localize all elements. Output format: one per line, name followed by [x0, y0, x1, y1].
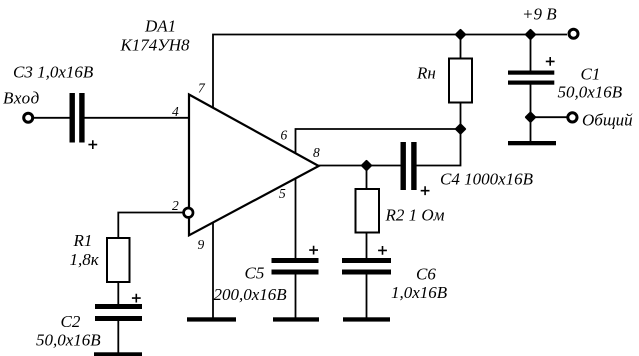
- wire: output pin 8 to C4 left plate: [319, 165, 401, 167]
- ground bar below pin 9: [187, 317, 236, 321]
- svg-text:C1: C1: [581, 65, 601, 84]
- capacitor C3 plates: [70, 93, 75, 143]
- svg-text:К174УН8: К174УН8: [120, 36, 191, 55]
- capacitor C1 plates: [508, 71, 554, 75]
- junction node on rail at Rn: [456, 30, 465, 39]
- junction node pin6/Rn/C4: [456, 125, 465, 134]
- plus mark C2: [132, 294, 141, 303]
- svg-text:1,0x16В: 1,0x16В: [391, 283, 448, 302]
- wire: pin 2 left and down to R1 top: [118, 213, 183, 239]
- svg-text:+9 В: +9 В: [522, 5, 557, 24]
- ground bar below C5: [273, 317, 319, 321]
- wire: pin6 node down to C4 right plate: [417, 129, 461, 166]
- svg-text:4: 4: [172, 104, 179, 119]
- capacitor C4 plates: [401, 142, 406, 190]
- svg-text:DA1: DA1: [144, 17, 176, 36]
- capacitor C6 plates: [342, 258, 391, 263]
- wire: C6 bottom plate to ground: [366, 275, 368, 318]
- svg-text:Вход: Вход: [3, 89, 40, 108]
- wire: rail to Rn top: [460, 35, 462, 59]
- wire: +9V rail with pin 7 riser: [213, 35, 567, 108]
- svg-text:R1: R1: [73, 231, 93, 250]
- svg-text:Общий: Общий: [582, 111, 633, 130]
- input terminal circle: [24, 113, 33, 122]
- svg-text:C3 1,0x16В: C3 1,0x16В: [13, 63, 94, 82]
- capacitor C5 plates: [272, 258, 319, 263]
- wire: C2 bottom plate to ground: [117, 321, 119, 353]
- svg-text:5: 5: [279, 186, 286, 201]
- svg-text:50,0x16В: 50,0x16В: [558, 83, 623, 102]
- op-amp DA1 triangle: [189, 95, 319, 236]
- svg-text:C4 1000x16В: C4 1000x16В: [440, 170, 534, 189]
- svg-text:C2: C2: [61, 312, 81, 331]
- wire: input terminal to C3 left plate: [34, 117, 70, 119]
- wire: R1 bottom to C2 top plate: [117, 282, 119, 304]
- capacitor C2 plates: [95, 304, 142, 309]
- ground bar below C6: [343, 317, 390, 321]
- svg-text:1,8к: 1,8к: [70, 250, 100, 269]
- wire: R2 bottom to C6 top plate: [366, 233, 368, 259]
- wire: pin 5 down to C5 top plate: [295, 179, 297, 259]
- svg-text:Rн: Rн: [416, 64, 436, 83]
- junction node on rail at C1: [526, 30, 535, 39]
- plus mark C4: [421, 186, 430, 195]
- Obshchiy terminal circle: [568, 113, 577, 122]
- svg-text:50,0x16В: 50,0x16В: [36, 331, 101, 350]
- svg-text:6: 6: [281, 128, 288, 143]
- +9V terminal circle: [569, 29, 578, 38]
- svg-text:2: 2: [172, 198, 179, 213]
- resistor R2: [356, 189, 380, 233]
- plus mark C5: [309, 246, 318, 255]
- junction node C1 bottom/common: [526, 113, 535, 122]
- plus mark C3: [88, 140, 97, 149]
- ground bar below C1: [508, 141, 556, 145]
- svg-text:R2 1 Ом: R2 1 Ом: [385, 206, 445, 225]
- wire: C3 right plate to pin 4: [85, 117, 189, 119]
- wire: pin 6 stub and horizontal run: [296, 129, 461, 154]
- wire: common node to Obshchiy terminal: [531, 116, 569, 118]
- resistor R1: [107, 238, 130, 282]
- pin 2 inversion circle: [184, 208, 193, 217]
- plus mark C1: [546, 57, 555, 66]
- svg-text:200,0x16В: 200,0x16В: [214, 285, 288, 304]
- plus mark C6: [378, 246, 387, 255]
- svg-text:C6: C6: [416, 265, 436, 284]
- wire: rail node down to C1 top plate: [530, 35, 532, 72]
- wire: pin 9 down to ground: [212, 223, 214, 318]
- wire: output node down to R2 top: [366, 166, 368, 190]
- ground bar below C2: [94, 352, 142, 356]
- wire: C5 bottom plate to ground: [295, 275, 297, 318]
- svg-text:8: 8: [313, 145, 320, 160]
- resistor Rn: [449, 59, 472, 103]
- wire: Rn bottom to pin6 node: [460, 103, 462, 130]
- svg-text:9: 9: [198, 237, 205, 252]
- junction node output/R2/C4: [362, 161, 371, 170]
- wire: C1 bottom plate to common node: [530, 85, 532, 118]
- svg-text:C5: C5: [245, 264, 265, 283]
- wire: common node to ground: [530, 117, 532, 141]
